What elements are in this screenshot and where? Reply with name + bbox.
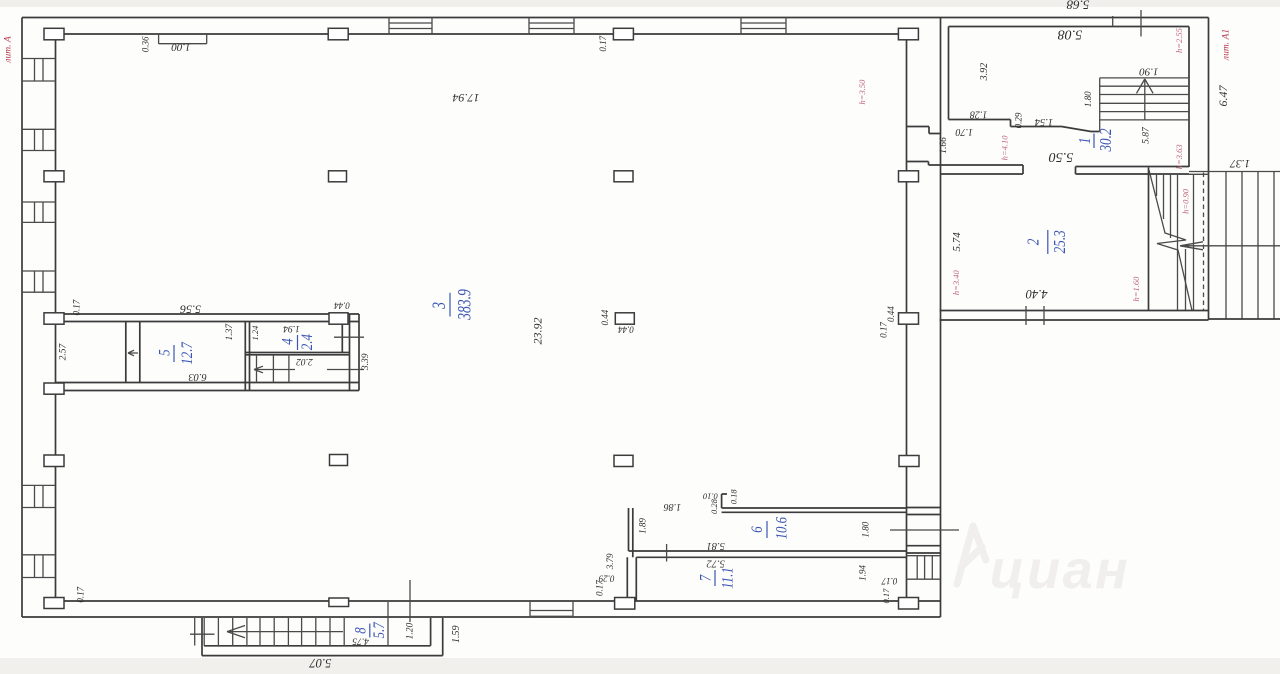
- svg-text:h=3.50: h=3.50: [857, 79, 867, 105]
- svg-text:0.44: 0.44: [600, 309, 610, 325]
- svg-text:0.36: 0.36: [141, 36, 151, 52]
- svg-text:5.87: 5.87: [1142, 126, 1152, 144]
- svg-text:2.02: 2.02: [296, 356, 313, 366]
- svg-text:30.2: 30.2: [1098, 128, 1116, 152]
- svg-text:5.81: 5.81: [707, 540, 725, 551]
- svg-text:1.80: 1.80: [1083, 91, 1093, 107]
- svg-text:1.89: 1.89: [638, 518, 648, 534]
- svg-text:1: 1: [1077, 137, 1095, 144]
- svg-text:5.74: 5.74: [951, 232, 963, 252]
- svg-text:11.1: 11.1: [719, 567, 737, 588]
- svg-text:1.59: 1.59: [451, 626, 462, 644]
- svg-text:1.37: 1.37: [1229, 157, 1250, 169]
- svg-text:0.44: 0.44: [886, 306, 896, 322]
- svg-text:1.80: 1.80: [860, 521, 870, 537]
- svg-text:0.29: 0.29: [1013, 112, 1023, 128]
- svg-text:циан: циан: [990, 540, 1131, 600]
- svg-text:0.18: 0.18: [729, 489, 739, 505]
- svg-text:5.56: 5.56: [180, 303, 201, 317]
- svg-text:1.94: 1.94: [857, 565, 867, 581]
- svg-text:1.28: 1.28: [970, 109, 988, 120]
- svg-text:3.79: 3.79: [605, 553, 615, 570]
- svg-text:23.92: 23.92: [531, 318, 545, 345]
- svg-text:3.92: 3.92: [979, 63, 990, 82]
- svg-text:лит. А: лит. А: [4, 36, 14, 64]
- svg-text:1.24: 1.24: [250, 325, 260, 341]
- svg-text:5: 5: [156, 349, 174, 355]
- svg-text:0.17: 0.17: [594, 580, 604, 596]
- svg-text:5.72: 5.72: [706, 557, 725, 568]
- svg-text:8: 8: [352, 627, 370, 634]
- svg-text:1.70: 1.70: [956, 126, 974, 137]
- svg-text:5.08: 5.08: [1058, 27, 1083, 42]
- svg-text:0.28: 0.28: [709, 498, 719, 514]
- svg-text:6: 6: [749, 526, 767, 533]
- svg-text:0.44: 0.44: [334, 301, 350, 311]
- svg-text:5.7: 5.7: [371, 622, 389, 639]
- svg-text:4.40: 4.40: [1025, 287, 1048, 301]
- svg-text:3: 3: [428, 302, 450, 310]
- svg-text:1.90: 1.90: [1139, 65, 1159, 77]
- svg-text:1.00: 1.00: [171, 41, 191, 53]
- svg-text:383.9: 383.9: [453, 289, 475, 321]
- svg-text:6.47: 6.47: [1216, 85, 1230, 107]
- svg-text:5.07: 5.07: [309, 656, 332, 670]
- svg-text:1.20: 1.20: [406, 622, 416, 639]
- svg-text:1.37: 1.37: [225, 323, 235, 341]
- svg-text:2: 2: [1025, 238, 1043, 245]
- svg-text:12.7: 12.7: [179, 342, 197, 365]
- svg-text:7: 7: [697, 574, 715, 581]
- svg-text:h=3.40: h=3.40: [951, 270, 961, 296]
- svg-text:1.94: 1.94: [283, 323, 300, 333]
- svg-text:h=1.60: h=1.60: [1131, 276, 1141, 302]
- svg-text:1.66: 1.66: [939, 137, 949, 154]
- svg-text:лит. А1: лит. А1: [1222, 29, 1232, 61]
- svg-text:0.17: 0.17: [72, 299, 82, 315]
- svg-text:5.68: 5.68: [1066, 0, 1089, 13]
- svg-text:0.17: 0.17: [878, 322, 888, 338]
- svg-text:0.17: 0.17: [75, 586, 85, 602]
- svg-text:17.94: 17.94: [453, 91, 480, 105]
- svg-text:h=4.10: h=4.10: [1000, 135, 1010, 161]
- svg-text:0.17: 0.17: [881, 576, 897, 586]
- svg-text:0.17: 0.17: [881, 588, 891, 604]
- svg-text:2.4: 2.4: [299, 334, 317, 350]
- svg-text:0.44: 0.44: [618, 325, 634, 335]
- svg-text:1.54: 1.54: [1034, 116, 1053, 127]
- svg-text:2.57: 2.57: [59, 342, 69, 360]
- svg-text:h=3.63: h=3.63: [1174, 144, 1184, 169]
- svg-text:0.17: 0.17: [598, 35, 608, 51]
- svg-text:3.39: 3.39: [361, 353, 371, 371]
- svg-text:1.86: 1.86: [664, 501, 682, 512]
- svg-text:4: 4: [279, 338, 297, 344]
- svg-text:4.75: 4.75: [352, 635, 369, 645]
- svg-text:25.3: 25.3: [1052, 230, 1070, 253]
- svg-text:6.03: 6.03: [188, 371, 206, 382]
- svg-text:h=2.55: h=2.55: [1174, 28, 1184, 53]
- svg-text:10.6: 10.6: [773, 516, 791, 539]
- svg-text:5.50: 5.50: [1049, 149, 1074, 164]
- svg-text:h=0.90: h=0.90: [1181, 188, 1191, 214]
